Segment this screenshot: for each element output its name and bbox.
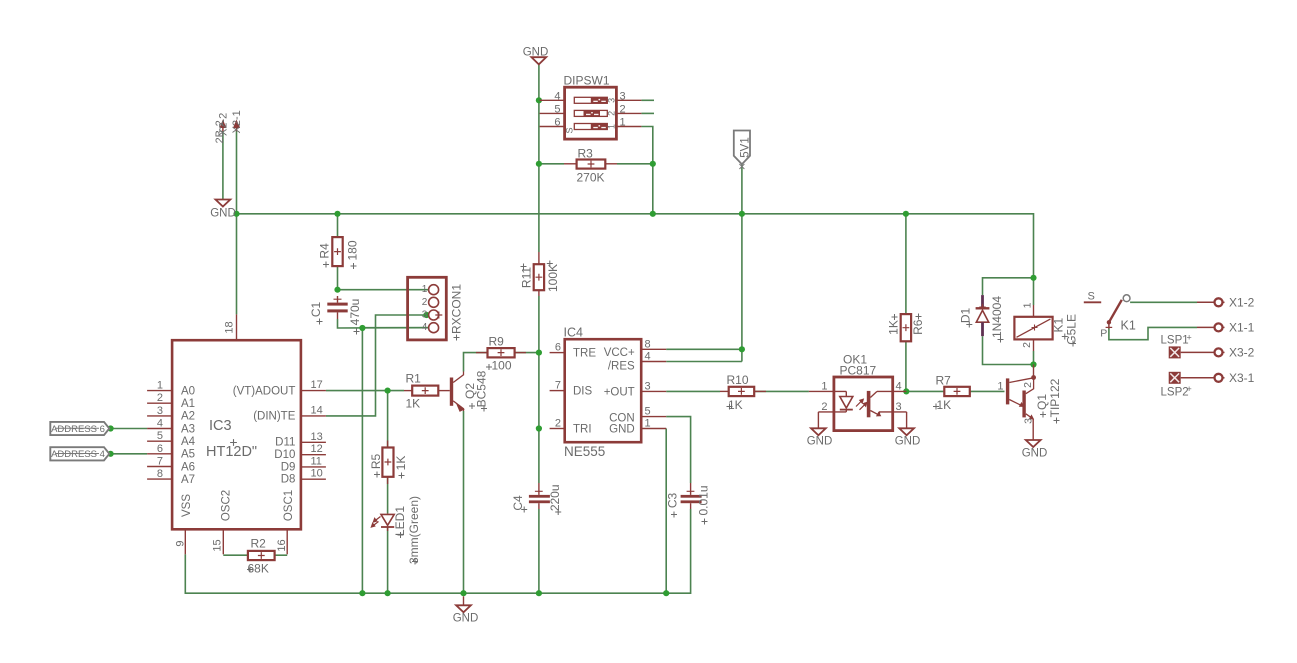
svg-text:1K: 1K [937,398,952,412]
svg-text:ADDRESS 4: ADDRESS 4 [51,449,105,460]
svg-text:R7: R7 [936,374,952,388]
wire DIPSW1 pin 1 to rail [641,127,652,214]
wire ground rail [185,509,690,593]
svg-text:A4: A4 [181,436,196,448]
junction ground rail / C4 [536,590,542,596]
svg-text:8: 8 [157,468,163,480]
svg-text:X3-2: X3-2 [1229,346,1255,360]
svg-text:+: + [1187,384,1192,394]
wire R7 to Q1 base [970,390,1005,392]
junction C1 / RXCON1 pin 4 / ground drop [359,325,365,331]
resistor R7 1K [933,374,970,413]
svg-text:17: 17 [311,379,323,391]
svg-text:RXCON1: RXCON1 [450,284,464,334]
wire +5V top rail from X2-1 to relay K1 [237,214,1034,278]
svg-text:13: 13 [311,431,323,443]
wire IC4 pin 5 CON to C3 [666,417,690,483]
relay K1 G5LE coil [1014,302,1078,351]
svg-text:R5: R5 [369,454,383,470]
svg-text:C3: C3 [666,493,680,509]
svg-text:X2-1: X2-1 [231,110,243,133]
svg-text:P: P [1100,328,1107,340]
wire D1 top branch [983,278,1034,295]
svg-text:1: 1 [620,117,626,129]
svg-text:G5LE: G5LE [1065,314,1079,345]
wire IC4 pin 1 GND to ground rail [665,429,667,594]
svg-text:3: 3 [422,310,428,321]
svg-text:D9: D9 [281,461,296,473]
svg-text:GND: GND [453,613,479,625]
svg-text:D8: D8 [281,474,296,486]
svg-text:1: 1 [422,284,428,295]
wire DIPSW1 pin 3 stub [641,99,654,101]
connector RXCON1 [408,277,464,340]
svg-text:1: 1 [645,418,651,430]
relay K1 switch contact [1084,291,1136,340]
svg-text:GND: GND [609,423,635,435]
optocoupler OK1 PC817 [809,353,907,431]
svg-text:PC817: PC817 [840,364,877,378]
junction 5V1 / rail [739,211,745,217]
junction ground rail / Q2 emitter / GND [460,590,466,596]
wire C1 node down to ground rail [361,328,363,593]
svg-text:1K: 1K [728,398,743,412]
svg-text:2: 2 [607,111,617,116]
junction R4 / C1 / RXCON1 pin 1 [334,287,340,293]
svg-text:4: 4 [645,351,651,363]
junction R4 / rail [334,211,340,217]
svg-text:3: 3 [645,380,651,392]
resistor R4 180 [317,237,359,269]
svg-text:1K: 1K [887,320,901,335]
svg-text:18: 18 [224,321,236,333]
wire IC4 pin 3 OUT to R10 [666,390,720,392]
junction ADDRESS 6 flag [108,425,114,431]
switch DIPSW1 [540,74,642,140]
svg-text:3: 3 [896,401,902,413]
svg-text:GND: GND [895,436,921,448]
svg-text:BC548: BC548 [475,370,489,407]
pin X3-2 [1181,346,1255,360]
wire R2 to OSC1 [275,554,288,556]
wire TRE node to TRI node to C4 [538,353,540,483]
junction ground rail / LED1 [385,590,391,596]
resistor R3 270K [564,147,617,185]
svg-text:2: 2 [1021,342,1033,348]
svg-text:8: 8 [645,338,651,350]
svg-text:2: 2 [620,104,626,116]
ground Q1 emitter [1022,440,1048,460]
svg-text:6: 6 [554,117,560,129]
svg-text:R10: R10 [727,373,749,387]
svg-text:2: 2 [555,418,561,430]
resistor R10 1K [720,373,766,412]
svg-text:(VT)ADOUT: (VT)ADOUT [233,385,296,397]
svg-text:D10: D10 [274,449,295,461]
svg-text:270K: 270K [577,171,605,185]
svg-text:A7: A7 [181,474,195,486]
transistor Q1 TIP122 darlington [997,365,1062,441]
svg-text:5V1: 5V1 [740,137,752,157]
wire Q2 collector to R9 [464,353,488,372]
svg-text:X3-1: X3-1 [1229,371,1255,385]
IC3 HT12D decoder [147,314,326,554]
svg-text:LED1: LED1 [393,506,407,536]
wire D1 bottom branch [983,336,1034,364]
LED LED1 3mm(Green) [371,496,421,565]
junction ground rail / IC4 GND [663,590,669,596]
svg-text:R2: R2 [251,537,267,551]
svg-text:S: S [1088,291,1095,303]
svg-text:2B-2: 2B-2 [214,120,226,143]
svg-text:7: 7 [157,456,163,468]
svg-text:1: 1 [607,124,617,129]
svg-text:10: 10 [311,468,323,480]
junction R3 right / rail drop [650,161,656,167]
svg-text:GND: GND [1022,448,1048,460]
svg-text:4: 4 [157,418,163,430]
wire C1 bottom to RXCON1 pin 4 [338,319,429,328]
solder pad LSP2 [1161,372,1192,399]
svg-text:1: 1 [1022,302,1034,308]
resistor R11 100K [520,252,561,296]
svg-text:K1: K1 [1052,318,1066,333]
wire switch pole P to X1-1 [1109,327,1197,339]
junction DIPSW pin1 drop / rail [650,211,656,217]
junction ground rail / C1 drop [359,590,365,596]
svg-text:NE555: NE555 [564,444,605,459]
svg-text:X1-2: X1-2 [1229,296,1255,310]
svg-text:HT12D": HT12D" [206,444,257,460]
wire OK1 pin 4 node to R7 [906,390,944,392]
svg-text:7: 7 [555,380,561,392]
junction D1 bottom / relay pin 2 / Q1 [1030,361,1036,367]
junction ADDRESS 4 flag [108,451,114,457]
svg-text:180: 180 [345,240,359,260]
svg-text:DIPSW1: DIPSW1 [564,74,610,88]
wire R6 bottom to opto output node [905,341,907,391]
resistor R1 1K [404,372,450,411]
svg-text:1N4004: 1N4004 [990,296,1004,338]
junction IC3 pin17 / R1 / R5 [385,388,391,394]
svg-text:2: 2 [422,297,428,308]
resistor R5 1K [369,441,408,485]
diode D1 1N4004 [959,295,1005,342]
pin X1-2 [1197,296,1255,310]
svg-text:VSS: VSS [181,494,193,517]
wire R3 right to +5V drop [617,163,653,165]
svg-text:220u: 220u [548,484,562,511]
svg-text:+OUT: +OUT [604,386,635,398]
svg-text:C1: C1 [309,302,323,318]
svg-text:/RES: /RES [608,360,635,372]
svg-text:C4: C4 [511,495,525,511]
junction IC4 VCC / 5V line [739,346,745,352]
capacitor C3 0.01u [666,483,711,525]
svg-text:4: 4 [554,91,560,103]
junction GND net / DIPSW pin 4 [536,97,542,103]
solder pad LSP1 [1161,333,1192,359]
svg-text:2: 2 [821,401,827,413]
svg-text:16: 16 [276,539,288,551]
wire C4 to ground rail [538,509,540,593]
wire node to RXCON1 pin 1 [338,289,429,291]
svg-text:1K: 1K [406,397,421,411]
svg-text:DIS: DIS [573,386,593,398]
svg-text:100K: 100K [546,264,560,292]
supply 5V1 [734,131,752,170]
svg-text:A2: A2 [181,411,195,423]
svg-text:R6: R6 [911,319,925,335]
wire R10 to OK1 pin 1 [754,390,809,392]
wire X2-2 to GND [222,131,224,200]
svg-text:3: 3 [620,91,626,103]
wire ADDRESS 4 flag to IC3 pin 6 [111,453,148,455]
svg-text:1: 1 [821,380,827,392]
wire Q2 emitter to ground rail [463,411,465,593]
svg-text:R3: R3 [578,147,594,161]
svg-text:GND: GND [210,208,236,220]
wire 5V1 supply to rail and IC4 VCC//RES [741,164,743,361]
svg-text:5: 5 [645,406,651,418]
svg-text:9: 9 [174,540,186,546]
svg-text:X1-1: X1-1 [1229,321,1255,335]
svg-text:2: 2 [157,392,163,404]
wire R9 to TRE node [515,352,539,354]
svg-text:6: 6 [157,443,163,455]
junction X2-1 / +5V rail [233,211,239,217]
svg-text:K1: K1 [1121,319,1136,333]
ground main rail [453,596,479,624]
resistor R6 1K [887,314,926,342]
ground OK1 pin 3 [895,412,921,448]
svg-text:A5: A5 [181,449,195,461]
junction IC4 TRI [536,425,542,431]
wire relay K1 pin 2 to Q1 collector node [1033,351,1035,365]
svg-text:6: 6 [555,342,561,354]
junction R6 / rail [903,211,909,217]
wire IC4 pin 8 to 5V line [666,348,742,350]
svg-text:0.01u: 0.01u [697,485,711,515]
svg-text:(DIN)TE: (DIN)TE [253,411,295,423]
svg-text:D1: D1 [959,308,973,324]
svg-text:68K: 68K [248,562,269,576]
svg-text:3: 3 [607,98,617,103]
wire IC3 pin 17 to R1 node [326,390,404,392]
svg-text:LSP2: LSP2 [1161,387,1189,399]
svg-text:15: 15 [212,539,224,551]
wire GND to DIPSW1 common and R11 [538,65,540,253]
svg-text:A6: A6 [181,461,195,473]
junction RXCON1 pin 3 [423,312,429,318]
svg-text:2: 2 [1022,382,1034,388]
svg-text:11: 11 [311,455,322,467]
net flag ADDRESS 6 [50,422,109,435]
svg-text:GND: GND [807,436,833,448]
svg-text:+: + [1187,333,1192,343]
svg-text:5: 5 [554,104,560,116]
ground X2-2 [210,200,236,220]
pin X3-1 [1181,371,1255,385]
capacitor C4 220u [511,483,562,515]
junction OK1 pin4 / R6 / R7 [903,388,909,394]
svg-text:TIP122: TIP122 [1048,378,1062,417]
pin X1-1 [1197,321,1255,335]
resistor R9 100 [476,335,526,373]
wire R4 to C1 node [337,266,339,290]
svg-text:IC3: IC3 [209,418,232,434]
net flag ADDRESS 4 [50,447,109,460]
svg-text:Q1: Q1 [1035,394,1049,410]
svg-text:A1: A1 [181,398,195,410]
wire R6 top to rail [905,214,907,314]
svg-text:ADDRESS 6: ADDRESS 6 [51,424,105,435]
svg-text:5: 5 [157,430,163,442]
svg-text:4: 4 [422,322,428,333]
op-amp timer IC4 NE555 [550,326,667,460]
connector pin X2-2 [214,113,230,144]
svg-text:3: 3 [1023,418,1035,424]
svg-text:LSP1: LSP1 [1161,335,1189,347]
resistor R2 68K [247,537,275,576]
svg-text:TRE: TRE [573,348,596,360]
wire LED1 to ground rail [387,527,389,593]
wire node to R5 [387,391,389,448]
wire OSC2 to R2 [223,554,248,556]
wire ADDRESS 6 flag to IC3 pin 4 [111,428,148,430]
wire R11 to IC4 TRE node [538,296,540,353]
svg-text:OSC2: OSC2 [220,490,232,521]
svg-text:OSC1: OSC1 [283,490,295,521]
ground OK1 pin 2 [807,412,833,448]
svg-text:3mm(Green): 3mm(Green) [407,496,421,564]
svg-text:IC4: IC4 [564,326,584,340]
svg-text:R1: R1 [406,372,422,386]
svg-text:R4: R4 [317,243,331,259]
svg-text:1K: 1K [394,456,408,471]
svg-text:A0: A0 [181,385,195,397]
svg-text:VCC+: VCC+ [604,347,635,359]
wire rail to R4 [337,214,339,237]
svg-text:12: 12 [311,443,323,455]
wire DIPSW1 pin 2 stub [641,112,654,114]
capacitor C1 470u [309,296,362,335]
svg-text:100: 100 [492,359,512,373]
svg-text:R9: R9 [489,335,505,349]
wire switch contact O to X1-2 [1130,301,1197,303]
wire RXCON1 pin 3 to IC3 pin 14 [326,315,429,416]
wire rail corner to relay K1 pin 1 [1033,278,1035,305]
junction R11 / R9 / IC4 TRE [536,350,542,356]
transistor Q2 BC548 [450,370,489,411]
wire R5 to LED1 [387,477,389,514]
svg-text:A3: A3 [181,423,195,435]
svg-text:D11: D11 [275,437,295,449]
svg-text:470u: 470u [348,299,362,326]
svg-text:1: 1 [997,380,1003,392]
svg-text:S: S [565,127,575,133]
wire IC4 pin 4 to 5V line [666,361,742,363]
svg-text:3: 3 [157,405,163,417]
svg-text:4: 4 [896,380,902,392]
wire X2-1 to VDD pin 18 [236,131,238,314]
junction GND net / R3 left [536,161,542,167]
wire R3 left to DIPSW net [539,163,564,165]
ground DIPSW1 net [523,47,549,65]
svg-text:14: 14 [311,404,323,416]
svg-text:R11: R11 [520,267,534,288]
junction rail / relay / D1 top [1030,275,1036,281]
svg-text:TRI: TRI [573,423,592,435]
svg-text:1: 1 [157,380,163,392]
connector pin X2-1 [231,110,243,133]
